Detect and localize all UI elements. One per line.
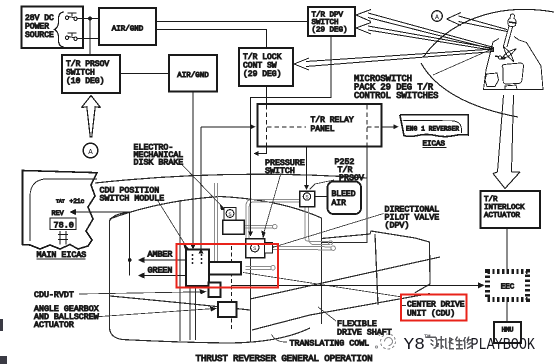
svg-text:PLAYBOOK: PLAYBOOK	[471, 336, 536, 355]
svg-text:(DPV): (DPV)	[385, 221, 410, 231]
svg-text:THRUST REVERSER GENERAL OPERAT: THRUST REVERSER GENERAL OPERATION	[196, 353, 373, 364]
svg-text:(29 DEG): (29 DEG)	[312, 27, 348, 35]
svg-text:SWITCH MODULE: SWITCH MODULE	[100, 195, 165, 204]
svg-text:(29 DEG): (29 DEG)	[243, 70, 281, 79]
svg-text:GREEN: GREEN	[148, 267, 173, 276]
svg-text:TRANSLATING COWL: TRANSLATING COWL	[290, 340, 370, 349]
svg-text:TAT: TAT	[56, 199, 65, 205]
svg-text:AIR/GND: AIR/GND	[177, 72, 209, 80]
svg-text:TM: TM	[424, 333, 431, 340]
svg-text:SWITCH: SWITCH	[265, 167, 295, 176]
svg-text:AIR: AIR	[332, 199, 347, 208]
svg-text:PANEL: PANEL	[311, 125, 335, 134]
svg-text:Y8: Y8	[404, 336, 426, 355]
svg-text:AIR/GND: AIR/GND	[112, 26, 144, 34]
svg-text:ACTUATOR: ACTUATOR	[34, 321, 74, 330]
svg-text:A: A	[435, 14, 439, 21]
svg-text:REV: REV	[52, 210, 65, 218]
svg-text:UNIT (CDU): UNIT (CDU)	[407, 310, 455, 319]
svg-text:ACTUATOR: ACTUATOR	[484, 212, 521, 220]
svg-text:INTERLOCK: INTERLOCK	[484, 204, 525, 212]
svg-text:AMBER: AMBER	[148, 251, 173, 260]
svg-text:A: A	[88, 149, 93, 157]
svg-text:(10 DEG): (10 DEG)	[66, 77, 104, 86]
svg-text:CDU-RVDT: CDU-RVDT	[34, 291, 74, 300]
svg-text:ENG 1 REVERSER: ENG 1 REVERSER	[406, 126, 459, 133]
svg-text:DRIVE SHAFT: DRIVE SHAFT	[337, 329, 392, 338]
svg-text:HMU: HMU	[502, 327, 514, 334]
svg-text:SOURCE: SOURCE	[25, 31, 54, 40]
svg-text:T/R: T/R	[484, 196, 498, 204]
svg-text:EEC: EEC	[501, 284, 515, 292]
svg-text:BLEED: BLEED	[332, 190, 356, 199]
svg-text:CENTER DRIVE: CENTER DRIVE	[407, 301, 465, 310]
svg-text:PRSOV: PRSOV	[339, 174, 364, 183]
svg-text:T/R RELAY: T/R RELAY	[311, 116, 354, 125]
svg-text:+21c: +21c	[70, 198, 85, 205]
svg-text:CONTROL SWITCHES: CONTROL SWITCHES	[354, 91, 438, 101]
svg-text:78.0: 78.0	[54, 220, 74, 230]
svg-text:DISK BRAKE: DISK BRAKE	[134, 159, 184, 168]
